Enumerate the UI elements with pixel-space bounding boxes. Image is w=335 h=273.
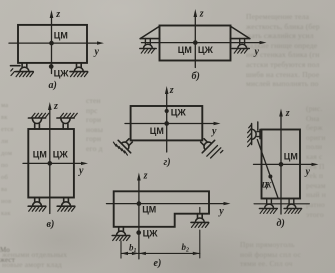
node y-arrow v (81, 162, 88, 165)
svg-text:ЦЖ: ЦЖ (54, 68, 69, 79)
pendulum line d (257, 140, 278, 199)
svg-text:ЦЖ: ЦЖ (261, 181, 273, 190)
svg-text:y: y (78, 166, 84, 177)
svg-text:y: y (218, 206, 224, 217)
wall hatching d (248, 125, 252, 147)
dimension line b1 e (121, 252, 139, 254)
svg-text:г): г) (164, 157, 171, 168)
stray hatch mark left margin (11, 69, 15, 76)
node z-arrow g (165, 86, 169, 94)
faint show-through text top-right (246, 12, 335, 89)
node z-arrow b (194, 9, 198, 17)
support e-left (112, 227, 130, 241)
svg-text:z: z (199, 9, 204, 20)
stepped plate outline e (114, 191, 209, 227)
dimension arrow b2-right e (193, 252, 200, 255)
wire z-axis g (166, 93, 168, 153)
dimension line b2 e (139, 252, 200, 254)
svg-text:b1: b1 (129, 243, 137, 255)
svg-text:y: y (254, 47, 260, 58)
svg-text:b2: b2 (182, 242, 190, 254)
support d-bottom-right (284, 199, 302, 214)
wire z-axis v (49, 109, 51, 214)
side bracket plate d (259, 129, 261, 138)
support b-right bracket (231, 26, 250, 53)
svg-text:ЦЖ: ЦЖ (143, 229, 158, 240)
plate rectangle v (28, 129, 74, 198)
wire y-axis v (23, 162, 81, 164)
node CM-CZh b (193, 40, 198, 45)
node z-arrow v (48, 102, 52, 110)
support a-right (70, 63, 88, 77)
node CZh g (165, 109, 169, 113)
side bracket legs d (257, 132, 260, 137)
svg-text:y: y (211, 126, 217, 137)
node CM d (279, 162, 284, 167)
support e-right axis line (199, 208, 201, 215)
svg-text:ЦМ: ЦМ (142, 205, 156, 216)
pin mast d (257, 122, 259, 130)
node CM-CZh v (47, 161, 52, 166)
plate rectangle g (131, 106, 203, 140)
node CM e (137, 201, 142, 206)
wall line d (251, 124, 253, 145)
node y-arrow d (312, 163, 319, 166)
dimension arrow b1-right e (132, 252, 139, 255)
svg-text:ЦЖ: ЦЖ (171, 108, 186, 119)
support e-right (191, 214, 209, 228)
support v-bottom-right (57, 198, 75, 212)
support g-right hatching (207, 146, 223, 159)
svg-text:z: z (143, 171, 148, 182)
support a-left (16, 63, 34, 77)
support v-top-right (57, 113, 77, 129)
svg-text:z: z (285, 108, 290, 119)
svg-text:д): д) (277, 218, 285, 229)
support v-top-left (28, 113, 48, 129)
svg-text:ЦМ: ЦМ (178, 45, 192, 56)
svg-text:б): б) (192, 71, 200, 82)
node CZh e (136, 230, 141, 235)
support b-left bracket (140, 26, 160, 53)
svg-text:z: z (169, 85, 174, 96)
support g-left hatching (113, 142, 127, 155)
node z-arrow d (279, 109, 283, 117)
wire y-axis g (125, 123, 213, 125)
node CM a (49, 41, 54, 46)
svg-text:е): е) (154, 258, 162, 269)
node CZh d (268, 175, 272, 179)
support d-bottom-left (259, 199, 277, 214)
dimension extension right e (199, 230, 201, 258)
node y-arrow a (97, 41, 104, 44)
wire z-axis b (194, 15, 196, 68)
svg-text:ЦЖ: ЦЖ (198, 45, 213, 56)
svg-text:ЦМ: ЦМ (150, 126, 164, 137)
plate rectangle d (262, 130, 301, 199)
wire z-axis d (280, 115, 282, 214)
stray ground dash left margin (11, 65, 21, 67)
node y-arrow e (224, 202, 231, 205)
support g-left inclined (118, 134, 137, 153)
node y-arrow b (260, 41, 267, 44)
node CM g (164, 121, 169, 126)
wire y-axis a (9, 42, 97, 44)
svg-text:y: y (305, 167, 311, 178)
svg-text:ЦМ: ЦМ (54, 31, 68, 42)
dimension arrow b2-left e (139, 252, 146, 255)
svg-text:а): а) (49, 80, 57, 91)
wire y-axis d (254, 163, 312, 165)
node z-arrow a (50, 10, 54, 18)
dimension extension left e (120, 241, 122, 258)
svg-text:ЦМ: ЦМ (284, 152, 298, 163)
wire y-axis e (107, 203, 224, 205)
svg-text:z: z (55, 9, 60, 20)
svg-text:ЦЖ: ЦЖ (53, 150, 68, 161)
wire z-axis e (138, 179, 140, 259)
plate rectangle b (160, 26, 231, 61)
dimension arrow b1-left e (121, 252, 128, 255)
side bracket dome d (252, 129, 256, 139)
svg-text:в): в) (47, 219, 55, 230)
svg-text:z: z (53, 101, 58, 112)
wire y-axis b (142, 42, 260, 44)
node z-arrow e (137, 173, 141, 181)
wire z-axis a (51, 16, 53, 74)
svg-text:y: y (94, 47, 100, 58)
plate rectangle a (18, 25, 87, 63)
node y-arrow g (214, 122, 221, 125)
ground link line d (254, 203, 309, 205)
support g-right inclined (196, 134, 215, 153)
support v-bottom-left (28, 198, 46, 212)
node CZh a (49, 64, 54, 69)
svg-text:ЦМ: ЦМ (33, 150, 47, 161)
